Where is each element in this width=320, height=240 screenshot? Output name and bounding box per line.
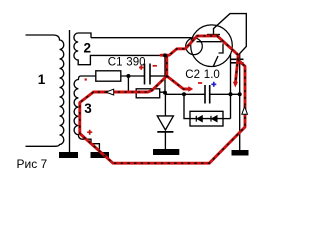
svg-text:2: 2 — [83, 40, 91, 55]
svg-text:3: 3 — [84, 101, 92, 116]
svg-text:C1390: C1390 — [108, 56, 146, 68]
svg-text:Рис 7: Рис 7 — [17, 157, 48, 171]
svg-text:1: 1 — [38, 72, 46, 87]
